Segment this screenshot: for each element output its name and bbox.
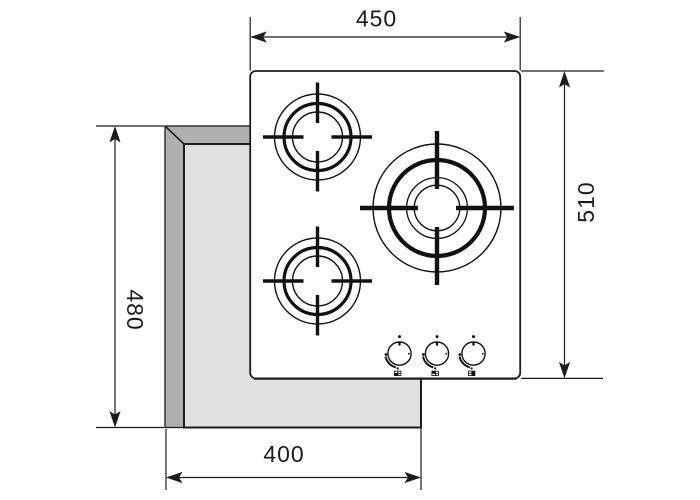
extension line right (420, 380, 422, 491)
control knob 1 (left) (385, 335, 412, 369)
arrowhead right (405, 472, 422, 483)
extension line top (521, 70, 604, 72)
worktop chamfer frame (165, 126, 421, 428)
worktop cutout inner area (184, 144, 421, 428)
dimension 480 (left height) (96, 126, 164, 428)
dimension 400 (bottom width) (166, 380, 421, 491)
dimension line (564, 73, 566, 376)
control knob 3 (right) (459, 335, 486, 369)
extension line bottom (521, 377, 603, 379)
arrowhead top (109, 126, 120, 143)
extension line top (96, 125, 164, 127)
burner bottom-left (263, 227, 372, 336)
dimension 450 (top width) (250, 17, 520, 71)
dimension line (114, 128, 116, 426)
svg-text:510: 510 (573, 181, 599, 222)
knob 3 burner-position icon (right column filled) (468, 371, 475, 376)
svg-text:450: 450 (356, 6, 397, 32)
svg-text:400: 400 (263, 441, 304, 467)
arrowhead left (250, 31, 267, 42)
arrowhead right (504, 31, 521, 42)
burner top-left (263, 83, 372, 192)
arrowhead left (166, 472, 183, 483)
burner large right (360, 131, 514, 285)
extension line right (519, 17, 521, 71)
knob 2 burner-position icon (top-left cell filled) (432, 371, 439, 376)
extension line left (165, 429, 167, 490)
arrowhead bottom (109, 411, 120, 428)
dimension line (252, 36, 518, 38)
hob panel (250, 71, 520, 378)
dimension 510 (right height) (521, 71, 604, 378)
extension line left (249, 17, 251, 71)
extension line bottom (96, 427, 164, 429)
svg-text:480: 480 (122, 289, 148, 330)
chamfer miter line (165, 126, 184, 144)
arrowhead bottom (559, 362, 570, 379)
arrowhead top (559, 71, 570, 88)
hob bottom edge (254, 378, 517, 380)
knob 1 burner-position icon (bottom-left cell filled) (394, 371, 401, 376)
dimension line (168, 477, 419, 479)
control knob 2 (middle) (422, 335, 449, 369)
